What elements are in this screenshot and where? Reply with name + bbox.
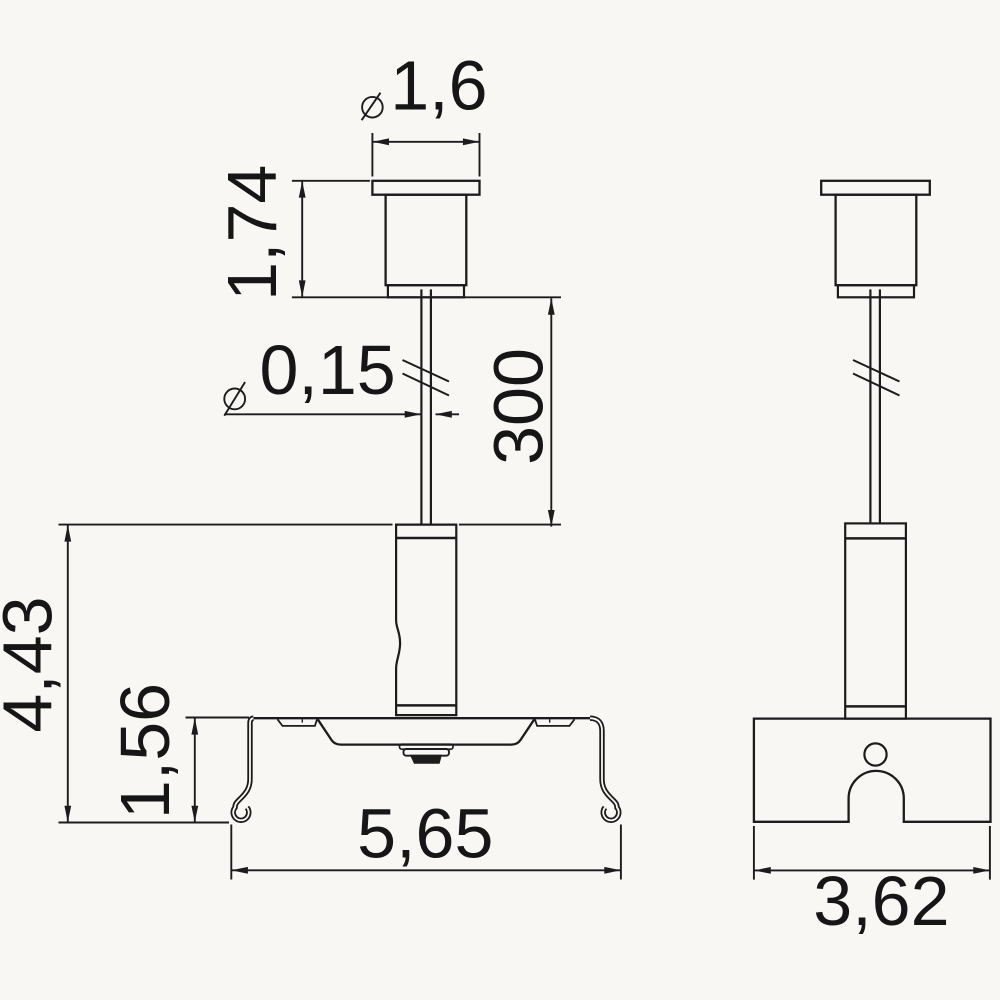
cylinder bottom band line (left view) (396, 704, 456, 707)
svg-text:0,15: 0,15 (259, 331, 395, 409)
cap body (left view) (386, 195, 467, 286)
dim 4,43 extension top (59, 524, 393, 526)
dim 5,65 line (231, 869, 621, 871)
dish left tick (301, 719, 303, 722)
dim 300 bottom extension (cylinder top) (459, 524, 561, 526)
suspension wire (left view) (421, 289, 431, 524)
hole circle (right view) (864, 743, 886, 765)
wire break symbol (left view) (403, 360, 450, 396)
clip left leg double-line (233, 718, 253, 820)
cylinder bottom band line (right view) (845, 705, 906, 708)
nut tier3 (left view, filled) (411, 756, 441, 764)
wire break symbol (right view) (853, 360, 900, 396)
cap body (right view) (836, 195, 917, 286)
arrows dim 300 (548, 298, 555, 315)
svg-text:300: 300 (480, 348, 558, 465)
dia symbol 1,6 (362, 97, 383, 118)
cylinder top band line (right view) (845, 537, 906, 540)
svg-text:1,74: 1,74 (213, 165, 291, 301)
cap step (left view) (388, 285, 464, 297)
arrows dim 1,56 (191, 718, 198, 735)
lower cylinder (right view) (845, 523, 906, 718)
suspension wire (right view) (870, 289, 880, 523)
dia symbol 0,15 (224, 389, 245, 410)
mounting block (right view) with arch notch (754, 719, 991, 822)
shared extension line y297 (1,74 bottom / 300 top) (292, 296, 561, 298)
lower cylinder (left view) with S-wave on left edge (396, 524, 456, 717)
svg-text:4,43: 4,43 (0, 596, 66, 732)
arrowheads (64, 138, 990, 873)
dim 300 line (550, 298, 552, 526)
dim 1,74 extension top (292, 180, 370, 182)
dish right tick (549, 719, 551, 722)
arrows dim 5,65 (231, 867, 248, 874)
nut tier2 (left view) (404, 749, 450, 756)
arrows dim 4,43 (64, 525, 71, 542)
dim 0,15 line (224, 413, 459, 415)
svg-text:1,6: 1,6 (390, 46, 487, 124)
shared bottom extension y822.5 (59, 822, 230, 824)
arrows dim 1,74 (299, 181, 306, 198)
cap step (right view) (838, 285, 914, 297)
dim 4,43 line (67, 525, 69, 822)
dim 3,62 extension lines (754, 826, 990, 880)
svg-text:5,65: 5,65 (357, 795, 493, 873)
dim 1,6 line (372, 141, 479, 143)
svg-text:1,56: 1,56 (106, 683, 184, 819)
cylinder top band line (left view) (396, 537, 456, 540)
dim 1,56 extension top (186, 717, 250, 719)
nut tier1 (left view) (400, 744, 454, 749)
clip bracket top line (left view) (253, 717, 591, 719)
dim 3,62 line (754, 869, 990, 871)
dim 1,6 extension lines (372, 133, 479, 177)
dim 1,56 line (194, 718, 196, 822)
cap flange (left view) (372, 181, 479, 195)
dish left lip groove (278, 719, 318, 726)
dim 5,65 extension lines (231, 825, 621, 880)
dim 1,74 line (301, 181, 303, 297)
arrows dim 0,15 (405, 411, 422, 418)
cap flange (right view) (821, 181, 930, 195)
svg-text:3,62: 3,62 (813, 862, 949, 940)
dish (left view) (318, 719, 535, 744)
arrows dim 3,62 (754, 867, 771, 874)
clip right leg double-line (590, 718, 619, 820)
arrows dim 1,6 (372, 138, 389, 145)
dish right lip groove (535, 719, 575, 726)
cylinder bottom edge (left view) (396, 714, 456, 716)
